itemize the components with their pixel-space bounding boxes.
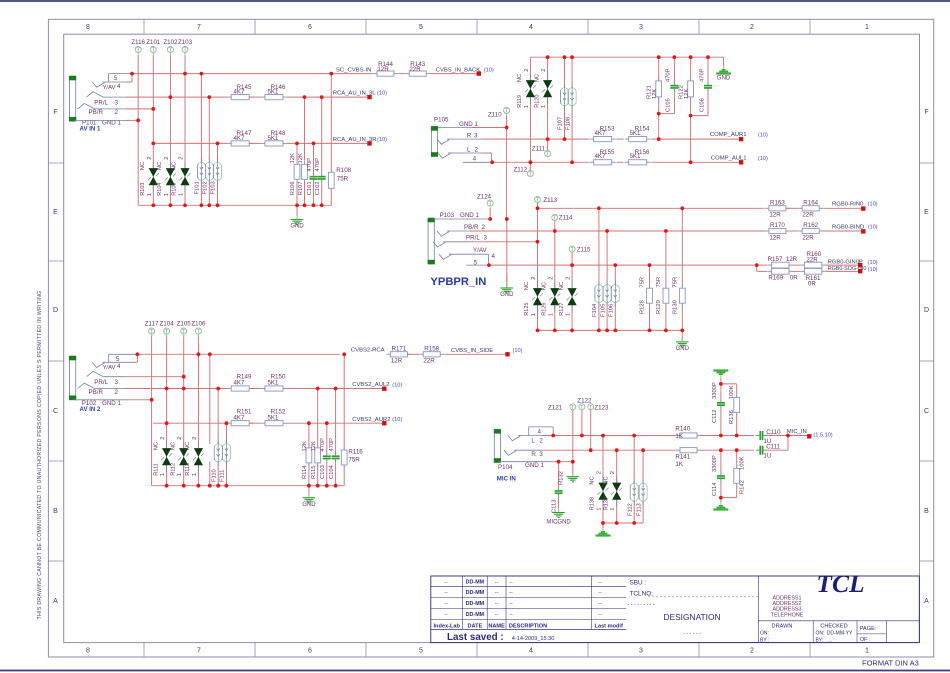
- connector P105: [431, 126, 438, 156]
- diode R113: [185, 436, 204, 476]
- wire: [489, 208, 491, 220]
- wire COMP_AUL1: [492, 161, 589, 163]
- svg-text:GND: GND: [290, 224, 304, 230]
- wire: [304, 181, 306, 206]
- pin 4 P102: [92, 354, 137, 371]
- svg-text:D: D: [53, 307, 58, 314]
- net RGB0-GIN0P: [828, 260, 878, 268]
- wire: [786, 207, 798, 209]
- svg-text:PR/L: PR/L: [466, 235, 480, 242]
- wire: [184, 186, 186, 206]
- svg-text:R128: R128: [640, 300, 646, 314]
- junction: [563, 137, 567, 141]
- svg-text:R139: R139: [603, 497, 609, 510]
- svg-text:Z112: Z112: [514, 167, 528, 174]
- resistor R155: [590, 149, 616, 165]
- junction: [615, 448, 619, 452]
- wire: [649, 265, 651, 287]
- svg-text:FORMAT DIN A3: FORMAT DIN A3: [862, 659, 919, 668]
- junction: [571, 460, 575, 464]
- svg-text:C: C: [924, 408, 929, 415]
- zone tick: [254, 19, 256, 657]
- label P104: [498, 464, 513, 471]
- svg-text:R136: R136: [729, 410, 735, 424]
- wire: [183, 337, 185, 377]
- junction: [589, 448, 593, 452]
- wire MIC_IN: [767, 435, 807, 437]
- svg-text:NC: NC: [172, 162, 178, 170]
- net SC_CVBS-IN: [336, 68, 371, 74]
- wire: [152, 56, 154, 169]
- junction: [689, 114, 693, 118]
- wire: [537, 203, 539, 242]
- junction: [490, 160, 494, 164]
- diode R104: [157, 156, 176, 196]
- wire: [304, 97, 306, 161]
- test point Z115: [569, 246, 591, 254]
- junction: [786, 434, 790, 438]
- net RCA_AU_IN_3R: [333, 137, 387, 146]
- wire: [343, 467, 345, 486]
- svg-text:NC: NC: [170, 442, 176, 450]
- resistor R107: [298, 153, 307, 195]
- svg-text:22R: 22R: [423, 358, 435, 365]
- svg-text:12R: 12R: [377, 66, 389, 73]
- zone number 1: [865, 24, 869, 654]
- wire: [721, 485, 737, 498]
- svg-text:12R: 12R: [769, 234, 781, 241]
- svg-text:6: 6: [308, 24, 312, 31]
- svg-text:3: 3: [474, 133, 478, 140]
- resistor R140: [675, 426, 701, 441]
- svg-text:E: E: [53, 209, 58, 216]
- wire: [126, 108, 153, 110]
- junction: [536, 329, 540, 333]
- junction: [182, 484, 186, 488]
- svg-text:NC: NC: [603, 476, 609, 484]
- wire CVBS_IN_BACK: [430, 73, 478, 75]
- svg-text:Last saved :: Last saved :: [447, 632, 504, 643]
- wire: [335, 389, 337, 452]
- svg-text:C: C: [53, 408, 58, 415]
- test point Z103: [178, 39, 193, 56]
- junction: [200, 72, 204, 76]
- junction: [648, 263, 652, 267]
- diode R127: [559, 276, 578, 316]
- svg-text:4: 4: [117, 83, 121, 90]
- svg-text:R140: R140: [675, 426, 690, 433]
- svg-text:NC: NC: [524, 282, 530, 290]
- svg-text:3: 3: [115, 379, 119, 386]
- svg-text:AV IN 2: AV IN 2: [80, 406, 101, 413]
- wire YPBPR1_BIN2: [470, 230, 766, 232]
- junction: [182, 375, 186, 379]
- svg-text:B: B: [924, 508, 929, 515]
- svg-text:4K7: 4K7: [233, 89, 245, 96]
- svg-text:GND 1: GND 1: [460, 212, 479, 219]
- wire: [554, 221, 556, 232]
- svg-text:R127: R127: [559, 303, 565, 316]
- junction: [601, 434, 605, 438]
- capacitor C104: [329, 438, 340, 479]
- svg-text:DESIGNATION: DESIGNATION: [663, 612, 720, 622]
- wire: [399, 73, 406, 75]
- svg-text:F113: F113: [636, 503, 642, 516]
- junction: [316, 484, 320, 488]
- wire: [308, 464, 310, 485]
- pin 4 P105: [463, 153, 492, 162]
- svg-text:NC: NC: [157, 162, 163, 170]
- zone number 5: [419, 24, 423, 654]
- junction: [216, 387, 220, 391]
- junction: [165, 421, 169, 425]
- filter F102: [203, 158, 214, 194]
- wire: [606, 231, 608, 285]
- resistor R153: [590, 126, 616, 142]
- wire: [183, 466, 185, 486]
- wire: [249, 388, 261, 390]
- ground AV1: [290, 206, 304, 230]
- junction: [680, 329, 684, 333]
- resistor R149: [227, 374, 253, 391]
- svg-text:Z117: Z117: [145, 320, 159, 327]
- svg-text:T: T: [536, 198, 539, 204]
- svg-text:C106: C106: [699, 98, 705, 112]
- svg-text:12K: 12K: [302, 441, 308, 451]
- wire: [720, 378, 722, 384]
- svg-text:2: 2: [192, 436, 198, 439]
- drawn cell: [760, 624, 792, 644]
- junction: [197, 352, 201, 356]
- wire: [571, 57, 573, 88]
- junction: [632, 434, 636, 438]
- svg-text:PB/R: PB/R: [89, 389, 104, 396]
- svg-text:1K: 1K: [675, 433, 683, 440]
- wire: [642, 501, 644, 523]
- junction: [182, 387, 186, 391]
- pin 4 P101: [92, 74, 132, 91]
- wire: [217, 461, 219, 485]
- svg-text:R104: R104: [157, 183, 163, 196]
- svg-text:1: 1: [865, 647, 869, 654]
- net COMP_AUR1: [710, 132, 768, 141]
- wire: [208, 180, 210, 205]
- junction: [307, 484, 311, 488]
- wire: [209, 461, 211, 485]
- capacitor C110: [756, 429, 781, 445]
- svg-text:R130: R130: [673, 300, 679, 314]
- wire: [665, 231, 667, 287]
- svg-text:1U: 1U: [763, 453, 771, 460]
- svg-text:2: 2: [179, 156, 185, 159]
- junction: [312, 203, 316, 207]
- wire: [506, 115, 508, 128]
- svg-text:2: 2: [147, 156, 153, 159]
- svg-text:--: --: [495, 612, 499, 618]
- junction: [329, 72, 333, 76]
- svg-text:22R: 22R: [802, 234, 814, 241]
- svg-text:Z101: Z101: [146, 39, 161, 46]
- junction: [295, 142, 299, 146]
- wire: [183, 389, 185, 449]
- svg-text:C114: C114: [712, 482, 718, 496]
- zone letter D: [53, 307, 929, 314]
- svg-text:12R: 12R: [769, 212, 781, 219]
- svg-text:C111: C111: [766, 444, 780, 451]
- wire to R149: [126, 388, 227, 390]
- pin 3 P105: [437, 133, 483, 145]
- net CVBS2_AUR2: [352, 417, 402, 426]
- connector P102: [69, 356, 76, 400]
- svg-text:4K7: 4K7: [594, 130, 606, 137]
- pin 4 P104: [529, 427, 554, 436]
- wire: [326, 423, 328, 452]
- svg-text:NC: NC: [542, 282, 548, 290]
- wire CVBS2_AUL2: [287, 388, 382, 390]
- diode R138: [590, 471, 609, 511]
- test point Z102: [163, 39, 178, 56]
- junction: [553, 229, 557, 233]
- wire: [321, 97, 323, 172]
- resistor R164: [798, 200, 823, 219]
- svg-text:Z102: Z102: [163, 39, 178, 46]
- zone tick: [587, 19, 589, 657]
- wire: [558, 462, 560, 487]
- resistor R148: [261, 130, 287, 146]
- svg-text:R142: R142: [740, 480, 746, 494]
- svg-text:PB/R: PB/R: [89, 109, 104, 116]
- svg-text:(10): (10): [758, 133, 768, 139]
- capacitor C101: [307, 158, 318, 195]
- filter F101: [195, 158, 206, 194]
- table header: [433, 623, 622, 629]
- svg-text:Z111: Z111: [532, 145, 546, 152]
- ground MIC2: [713, 502, 728, 511]
- svg-text:D: D: [924, 307, 929, 314]
- svg-text:2: 2: [115, 389, 119, 396]
- junction: [719, 434, 723, 438]
- junction: [664, 229, 668, 233]
- junction: [546, 137, 550, 141]
- resistor R151: [227, 408, 253, 425]
- zone tick: [48, 162, 933, 164]
- resistor R141: [675, 448, 701, 469]
- wire: [614, 302, 616, 330]
- svg-text:470P: 470P: [320, 438, 326, 452]
- svg-text:4K7: 4K7: [233, 380, 245, 387]
- svg-text:R113: R113: [185, 463, 191, 476]
- resistor R147: [227, 130, 253, 146]
- junction: [641, 448, 645, 452]
- junction: [580, 434, 584, 438]
- svg-text:8: 8: [86, 24, 90, 31]
- zone tick: [365, 19, 367, 657]
- resistor R170: [765, 222, 790, 241]
- wire YPBPR1_GIN: [489, 264, 753, 266]
- capacitor C106: [699, 68, 712, 112]
- junction: [613, 263, 617, 267]
- svg-text:Z103: Z103: [178, 39, 193, 46]
- last saved: [447, 632, 554, 643]
- junction: [207, 95, 211, 99]
- wire: [658, 57, 660, 81]
- svg-text:--: --: [509, 612, 513, 618]
- diode R112: [170, 436, 189, 476]
- svg-text:C105: C105: [666, 98, 672, 112]
- svg-text:DATE: DATE: [467, 623, 482, 629]
- zone tick: [48, 560, 933, 562]
- svg-text:R125: R125: [524, 303, 530, 316]
- page bottom edge: [0, 670, 950, 672]
- wire: [633, 436, 635, 484]
- junction: [487, 263, 491, 267]
- svg-text:1: 1: [160, 473, 166, 476]
- wire: [659, 97, 675, 114]
- svg-text:CHECKED: CHECKED: [820, 624, 847, 630]
- net CVBS2-RCA: [351, 348, 385, 354]
- wire: [217, 143, 219, 162]
- svg-text:R132: R132: [559, 471, 565, 485]
- svg-text:R129: R129: [656, 300, 662, 314]
- sbu cell: [630, 579, 647, 586]
- svg-text:5: 5: [474, 259, 478, 266]
- wire: [326, 463, 328, 486]
- junction: [601, 521, 605, 525]
- wire: [151, 400, 153, 486]
- connector P103: [428, 218, 435, 264]
- svg-text:(10): (10): [392, 382, 402, 388]
- diode R119: [517, 68, 536, 108]
- svg-text:NAME: NAME: [488, 623, 505, 629]
- junction: [706, 55, 710, 59]
- label MIC IN: [497, 476, 516, 483]
- pin 2 P104: [508, 436, 543, 445]
- svg-text:3300P: 3300P: [712, 455, 718, 472]
- pin 4 P103: [439, 247, 496, 260]
- svg-text:3: 3: [115, 100, 119, 107]
- svg-text:DESCRIPTION: DESCRIPTION: [509, 623, 547, 629]
- svg-text:1: 1: [865, 24, 869, 31]
- wire: [183, 377, 185, 389]
- svg-text:(10): (10): [868, 224, 878, 230]
- svg-text:NC: NC: [517, 74, 523, 82]
- svg-text:2: 2: [531, 276, 537, 279]
- junction: [325, 484, 329, 488]
- wire: [317, 464, 319, 485]
- junction: [632, 521, 636, 525]
- svg-text:3: 3: [484, 235, 488, 242]
- svg-text:22R: 22R: [409, 66, 421, 73]
- svg-text:Z113: Z113: [543, 197, 557, 204]
- svg-text:C113: C113: [552, 500, 558, 513]
- wire: [249, 96, 261, 98]
- junction: [225, 421, 229, 425]
- svg-text:470P: 470P: [666, 68, 672, 82]
- wire: [249, 422, 261, 424]
- svg-text:4: 4: [538, 428, 542, 435]
- net RCA_AU_IN_3L: [333, 91, 387, 100]
- junction: [325, 421, 329, 425]
- svg-text:0R: 0R: [808, 280, 816, 287]
- test point Z110: [488, 108, 510, 119]
- svg-text:5K1: 5K1: [267, 135, 279, 142]
- svg-text:NC: NC: [185, 442, 191, 450]
- wire: [197, 337, 199, 354]
- wire: [407, 353, 419, 355]
- svg-text:2: 2: [548, 276, 554, 279]
- filter F104: [592, 281, 603, 317]
- wire: [616, 500, 618, 523]
- svg-text:5: 5: [116, 356, 120, 363]
- svg-text:Z124: Z124: [477, 194, 492, 201]
- junction: [648, 329, 652, 333]
- svg-text:R170: R170: [770, 222, 785, 229]
- junction: [657, 112, 661, 116]
- svg-text:1: 1: [566, 313, 572, 316]
- junction: [505, 217, 509, 221]
- svg-text:1: 1: [179, 193, 185, 196]
- tclno cell: [630, 590, 654, 597]
- svg-text:L: L: [467, 147, 471, 154]
- wire: [537, 242, 539, 288]
- resistor R146: [261, 84, 287, 100]
- gnd bus YPBPR: [538, 329, 683, 331]
- pin 3 P103: [433, 235, 488, 247]
- page cell: [860, 626, 877, 643]
- wire: [616, 450, 618, 482]
- wire: [723, 57, 725, 66]
- junction: [307, 421, 311, 425]
- svg-text:Z116: Z116: [131, 39, 145, 46]
- junction: [216, 203, 220, 207]
- junction: [570, 160, 574, 164]
- test point Z116: [131, 39, 145, 56]
- svg-text:A: A: [924, 598, 929, 605]
- wire: [343, 354, 345, 448]
- resistor R122: [679, 78, 694, 100]
- svg-text:Z122: Z122: [577, 398, 592, 405]
- wire: [547, 57, 549, 80]
- svg-text:5K1: 5K1: [629, 153, 641, 160]
- resistor R129: [656, 277, 669, 314]
- wire COMP_AUR1: [483, 138, 589, 140]
- svg-text:22R: 22R: [806, 256, 818, 263]
- junction: [316, 387, 320, 391]
- junction: [719, 382, 723, 386]
- wire gnd vertical: [506, 128, 508, 220]
- wire: [169, 56, 171, 169]
- junction: [200, 203, 204, 207]
- svg-text:4: 4: [117, 363, 121, 370]
- test point Z106: [191, 320, 206, 337]
- wire top bus: [530, 57, 723, 80]
- label P103: [440, 212, 455, 219]
- test point Z111: [532, 145, 551, 157]
- svg-text:R116: R116: [348, 449, 363, 456]
- svg-text:2: 2: [482, 224, 486, 231]
- wire: [547, 98, 549, 151]
- svg-text:2: 2: [750, 24, 754, 31]
- net COMP_AUL1: [711, 155, 768, 164]
- junction: [183, 203, 187, 207]
- svg-text:470P: 470P: [329, 438, 335, 452]
- wire GIN upper: [753, 264, 768, 266]
- wire: [571, 265, 573, 288]
- svg-text:NC: NC: [140, 162, 146, 170]
- svg-text:F112: F112: [627, 503, 633, 516]
- resistor R142: [734, 456, 746, 494]
- svg-text:0R: 0R: [790, 274, 798, 281]
